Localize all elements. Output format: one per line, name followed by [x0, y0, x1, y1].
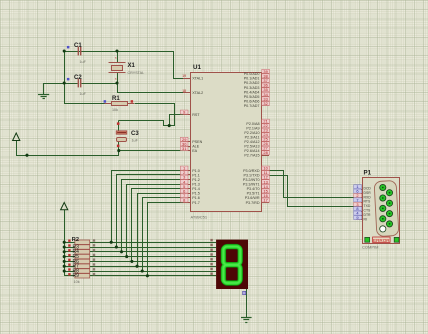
svg-text:17: 17 — [263, 198, 267, 203]
pin 31 EA — [180, 146, 197, 153]
wire branch to MCU P1.3 — [127, 185, 184, 257]
svg-text:1uF: 1uF — [80, 60, 87, 64]
svg-text:32: 32 — [263, 101, 267, 106]
wire branch to MCU P1.5 — [138, 194, 184, 267]
pin 16 P3.6/WR — [245, 193, 270, 200]
pin 22 P2.1/A9 — [246, 123, 269, 130]
svg-text:×: × — [115, 77, 117, 81]
svg-text:19: 19 — [182, 74, 186, 78]
node R2 rail junction 1 — [63, 241, 66, 244]
pin 33 P0.6/AD6 — [244, 96, 270, 103]
svg-text:P0.6/AD6: P0.6/AD6 — [244, 100, 260, 104]
node R2 rail junction 5 — [63, 260, 66, 263]
svg-text:P3.2/INT0: P3.2/INT0 — [243, 178, 260, 182]
wire crystal bottom pin — [117, 73, 119, 83]
pin 23 P2.2/A10 — [244, 128, 269, 135]
svg-text:R1: R1 — [112, 96, 120, 102]
pin 9 RI COMPIM — [354, 215, 367, 221]
pin 37 P0.2/AD2 — [244, 78, 270, 85]
capacitor C3 — [116, 122, 139, 147]
svg-text:P3.7/RD: P3.7/RD — [246, 201, 260, 205]
svg-text:P3.6/WR: P3.6/WR — [245, 196, 260, 200]
wire C2 to crystal bottom / XTAL2 — [82, 84, 184, 93]
pin 1 P1.0 — [180, 166, 199, 173]
svg-text:P1.0: P1.0 — [192, 169, 200, 173]
pin 4 P1.3 — [180, 179, 199, 186]
power terminal arrow — [13, 133, 20, 141]
ground — [38, 83, 49, 99]
svg-text:P2.4/A12: P2.4/A12 — [244, 140, 259, 144]
svg-text:P3.3/INT1: P3.3/INT1 — [243, 183, 260, 187]
pin 26 P2.5/A13 — [244, 141, 269, 148]
crystal X1 — [109, 56, 145, 81]
svg-text:P0.3/AD3: P0.3/AD3 — [244, 86, 260, 90]
svg-text:AT89C51: AT89C51 — [191, 215, 208, 220]
node C2 ground junction — [63, 81, 66, 84]
svg-text:P1.5: P1.5 — [192, 192, 200, 196]
wire rail to R2 element 4 — [64, 256, 75, 258]
svg-text:C1: C1 — [74, 43, 82, 49]
node crystal top junction — [115, 49, 118, 52]
pin 7 P1.6 — [180, 193, 199, 200]
wire P3.0 RXD to COMPIM RXD — [270, 171, 357, 198]
pin 6 P1.5 — [180, 188, 199, 195]
node R2 rail junction 3 — [63, 250, 66, 253]
wire branch to MCU P1.7 — [148, 203, 184, 276]
svg-text:P1.6: P1.6 — [192, 196, 200, 200]
svg-text:XTAL1: XTAL1 — [192, 76, 203, 80]
svg-text:9: 9 — [356, 215, 358, 220]
wire C3 top to RST net — [118, 121, 120, 131]
wire RST branch — [170, 115, 184, 126]
pin 30 ALE — [180, 141, 199, 148]
wire branch to MCU P1.6 — [143, 198, 184, 272]
svg-text:1uF: 1uF — [132, 139, 139, 143]
svg-text:RI: RI — [364, 217, 367, 221]
svg-text:P3.0/RXD: P3.0/RXD — [243, 169, 260, 173]
svg-text:TXD: TXD — [364, 204, 371, 208]
node R2 rail junction 6 — [63, 265, 66, 268]
svg-text:P0.4/AD4: P0.4/AD4 — [244, 90, 260, 94]
pin 36 P0.3/AD3 — [244, 83, 270, 90]
svg-text:P2.0/A8: P2.0/A8 — [246, 122, 259, 126]
wire R2 supply rail — [64, 210, 66, 276]
svg-text:DCD: DCD — [364, 187, 372, 191]
svg-text:DSR: DSR — [364, 191, 372, 195]
wire rail to R2 element 6 — [64, 266, 75, 268]
wire C1 to XTAL1 — [65, 52, 184, 79]
svg-text:X1: X1 — [128, 63, 136, 69]
pin 18 XTAL2 — [182, 89, 203, 95]
svg-text:P3.4/T0: P3.4/T0 — [247, 187, 260, 191]
pin 15 P3.5/T1 — [247, 188, 270, 195]
wire branch to MCU P1.1 — [117, 175, 184, 248]
pin 29 PSEN — [180, 137, 202, 144]
wire R2 pin 6 to display segment — [90, 266, 216, 268]
svg-text:P1.1: P1.1 — [192, 173, 200, 177]
node R2 rail junction 2 — [63, 245, 66, 248]
pin 10 P3.0/RXD — [243, 166, 269, 173]
pin 39 P0.0/AD0 — [244, 69, 270, 76]
svg-text:P2.5/A13: P2.5/A13 — [244, 144, 259, 148]
svg-text:P3.1/TXD: P3.1/TXD — [244, 173, 260, 177]
pin 28 P2.7/A15 — [244, 150, 269, 157]
node staircase junction 8 — [146, 274, 149, 277]
wire branch to MCU P1.2 — [122, 180, 184, 252]
svg-text:×: × — [115, 56, 117, 60]
resistor R1 — [104, 96, 134, 112]
node staircase junction 5 — [130, 260, 133, 263]
svg-text:P2.2/A10: P2.2/A10 — [244, 131, 259, 135]
ground display common — [241, 318, 252, 323]
connector P1 COMPIM — [362, 170, 400, 250]
svg-text:P0.2/AD2: P0.2/AD2 — [244, 81, 260, 85]
wire ground to C2 — [44, 83, 78, 85]
node staircase junction 6 — [136, 265, 139, 268]
pin 3 TXD COMPIM — [354, 202, 371, 208]
svg-text:C3: C3 — [131, 131, 139, 137]
pin 6 DSR COMPIM — [354, 189, 372, 195]
wire display common to ground — [246, 289, 248, 318]
svg-text:31: 31 — [182, 146, 186, 151]
pin 2 P1.1 — [180, 170, 199, 177]
wire C3 bottom pin — [118, 141, 120, 150]
svg-text:RXD: RXD — [364, 195, 372, 199]
wire crystal top pin — [117, 51, 119, 63]
wire rail to R2 element 3 — [64, 251, 75, 253]
pin 32 P0.7/AD7 — [244, 101, 270, 108]
pin 21 P2.0/A8 — [246, 119, 269, 126]
svg-text:10k: 10k — [112, 108, 118, 112]
node EA rail dot — [25, 154, 28, 157]
svg-text:R9: R9 — [73, 273, 80, 279]
pin 27 P2.6/A14 — [244, 146, 269, 153]
svg-text:CTS: CTS — [364, 209, 372, 213]
pin 19 XTAL1 — [182, 74, 203, 80]
svg-text:P1.4: P1.4 — [192, 187, 200, 191]
svg-text:28: 28 — [263, 150, 267, 155]
pin 38 P0.1/AD1 — [244, 73, 270, 80]
svg-text:RTS: RTS — [364, 200, 371, 204]
svg-text:PSEN: PSEN — [192, 140, 202, 144]
wire rail to R2 element 8 — [64, 275, 75, 277]
node R2 rail junction 7 — [63, 269, 66, 272]
svg-text:XTAL2: XTAL2 — [192, 91, 203, 95]
svg-text:1uF: 1uF — [80, 92, 87, 96]
wire R2 pin 4 to display segment — [90, 256, 216, 258]
pin 3 P1.2 — [180, 175, 199, 182]
node C3/EA junction — [117, 149, 120, 152]
svg-text:18: 18 — [182, 89, 186, 93]
capacitor C1 — [67, 43, 87, 64]
resistor pack R2 (stacked resistors) — [68, 237, 95, 284]
pin 2 RXD COMPIM — [354, 193, 372, 199]
wire rail to R2 element 1 — [64, 242, 75, 244]
pin 24 P2.3/A11 — [245, 132, 270, 139]
svg-text:9: 9 — [183, 110, 185, 115]
svg-text:P0.0/AD0: P0.0/AD0 — [244, 72, 260, 76]
pin 7 RTS COMPIM — [354, 197, 371, 203]
pin 34 P0.5/AD5 — [244, 92, 270, 99]
wire R1 to RST net — [135, 104, 175, 126]
wire R2 pin 3 to display segment — [90, 251, 216, 253]
wire branch to MCU P1.0 — [112, 171, 184, 243]
svg-text:EA: EA — [192, 149, 197, 153]
node staircase junction 3 — [120, 250, 123, 253]
svg-text:P1.3: P1.3 — [192, 183, 200, 187]
svg-text:COMPIM: COMPIM — [362, 245, 378, 250]
node R2 rail junction 4 — [63, 255, 66, 258]
node staircase junction 4 — [125, 255, 128, 258]
wire power arrow to EA — [17, 141, 184, 156]
svg-text:CRYSTAL: CRYSTAL — [128, 71, 145, 75]
pin 12 P3.2/INT0 — [243, 175, 270, 182]
svg-text:P1: P1 — [364, 170, 372, 177]
svg-text:P1.2: P1.2 — [192, 178, 200, 182]
wire rail to R2 element 5 — [64, 261, 75, 263]
node C1 junction — [63, 49, 66, 52]
wire P3.1 TXD to COMPIM TXD — [270, 176, 357, 207]
pin 25 P2.4/A12 — [244, 137, 269, 144]
svg-text:P2.7/A15: P2.7/A15 — [244, 153, 259, 157]
capacitor C2 — [67, 75, 87, 96]
svg-text:ERROR: ERROR — [373, 238, 390, 243]
svg-text:P2.3/A11: P2.3/A11 — [245, 135, 260, 139]
svg-text:P0.1/AD1: P0.1/AD1 — [244, 77, 260, 81]
svg-text:P0.7/AD7: P0.7/AD7 — [244, 104, 260, 108]
pin 8 CTS COMPIM — [354, 206, 371, 212]
svg-text:P1.7: P1.7 — [192, 201, 200, 205]
svg-text:RST: RST — [192, 113, 200, 117]
wire branch to MCU P1.4 — [132, 189, 184, 262]
pin 14 P3.4/T0 — [247, 184, 270, 191]
node staircase junction 2 — [115, 245, 118, 248]
power terminal arrow R2 — [61, 203, 68, 210]
svg-text:P2.1/A9: P2.1/A9 — [246, 126, 259, 130]
svg-text:P3.5/T1: P3.5/T1 — [247, 192, 260, 196]
wire R2 pin 2 to display segment — [90, 247, 216, 249]
pin 13 P3.3/INT1 — [243, 179, 270, 186]
svg-text:P0.5/AD5: P0.5/AD5 — [244, 95, 260, 99]
svg-text:R2: R2 — [72, 237, 79, 243]
pin 9 RST — [180, 110, 200, 117]
node staircase junction 7 — [141, 269, 144, 272]
wire left rail C1-C2-R1 — [65, 52, 105, 104]
pin 5 P1.4 — [180, 184, 199, 191]
node crystal bottom junction — [115, 81, 118, 84]
wire R2 pin 7 to display segment — [90, 271, 216, 273]
svg-text:C2: C2 — [74, 75, 82, 81]
node staircase junction 1 — [110, 241, 113, 244]
op-amp U1 AT89C51 microcontroller body — [191, 64, 262, 220]
svg-text:DTR: DTR — [364, 213, 372, 217]
svg-text:P2.6/A14: P2.6/A14 — [244, 149, 259, 153]
pin 11 P3.1/TXD — [244, 170, 270, 177]
wire R2 pin 1 to display segment — [90, 242, 216, 244]
pin 17 P3.7/RD — [246, 198, 270, 205]
svg-text:8: 8 — [183, 198, 185, 203]
svg-text:ALE: ALE — [192, 145, 200, 149]
pin 4 DTR COMPIM — [354, 211, 371, 217]
pin 35 P0.4/AD4 — [244, 87, 270, 94]
wire R2 pin 8 to display segment — [90, 275, 216, 277]
svg-text:10k: 10k — [74, 280, 80, 284]
pin 8 P1.7 — [180, 198, 199, 205]
pin 1 DCD COMPIM — [354, 184, 372, 190]
node RST net junction — [168, 124, 171, 127]
wire rail to R2 element 2 — [64, 247, 75, 249]
svg-text:U1: U1 — [193, 64, 201, 71]
7-segment display — [210, 239, 248, 295]
wire rail to R2 element 7 — [64, 271, 75, 273]
wire R2 pin 5 to display segment — [90, 261, 216, 263]
